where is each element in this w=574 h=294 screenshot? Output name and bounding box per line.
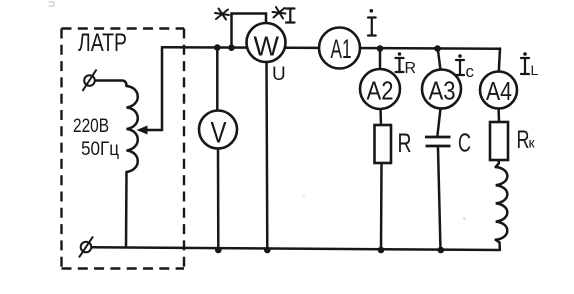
svg-text:R: R bbox=[398, 128, 412, 158]
svg-text:ЛАТР: ЛАТР bbox=[78, 29, 127, 57]
svg-text:к: к bbox=[529, 135, 536, 151]
svg-text:50Гц: 50Гц bbox=[81, 139, 119, 160]
svg-text:C: C bbox=[458, 128, 471, 158]
svg-text:R: R bbox=[405, 60, 417, 77]
svg-text:V: V bbox=[211, 117, 227, 150]
svg-text:A2: A2 bbox=[367, 76, 394, 106]
svg-text:A4: A4 bbox=[486, 76, 512, 106]
svg-text:A3: A3 bbox=[429, 76, 456, 106]
svg-text:c: c bbox=[466, 62, 475, 81]
svg-text:220В: 220В bbox=[73, 116, 109, 137]
svg-text:L: L bbox=[531, 62, 539, 78]
svg-text:A1: A1 bbox=[331, 34, 352, 64]
svg-text:W: W bbox=[254, 31, 280, 62]
svg-text:U: U bbox=[272, 64, 286, 85]
